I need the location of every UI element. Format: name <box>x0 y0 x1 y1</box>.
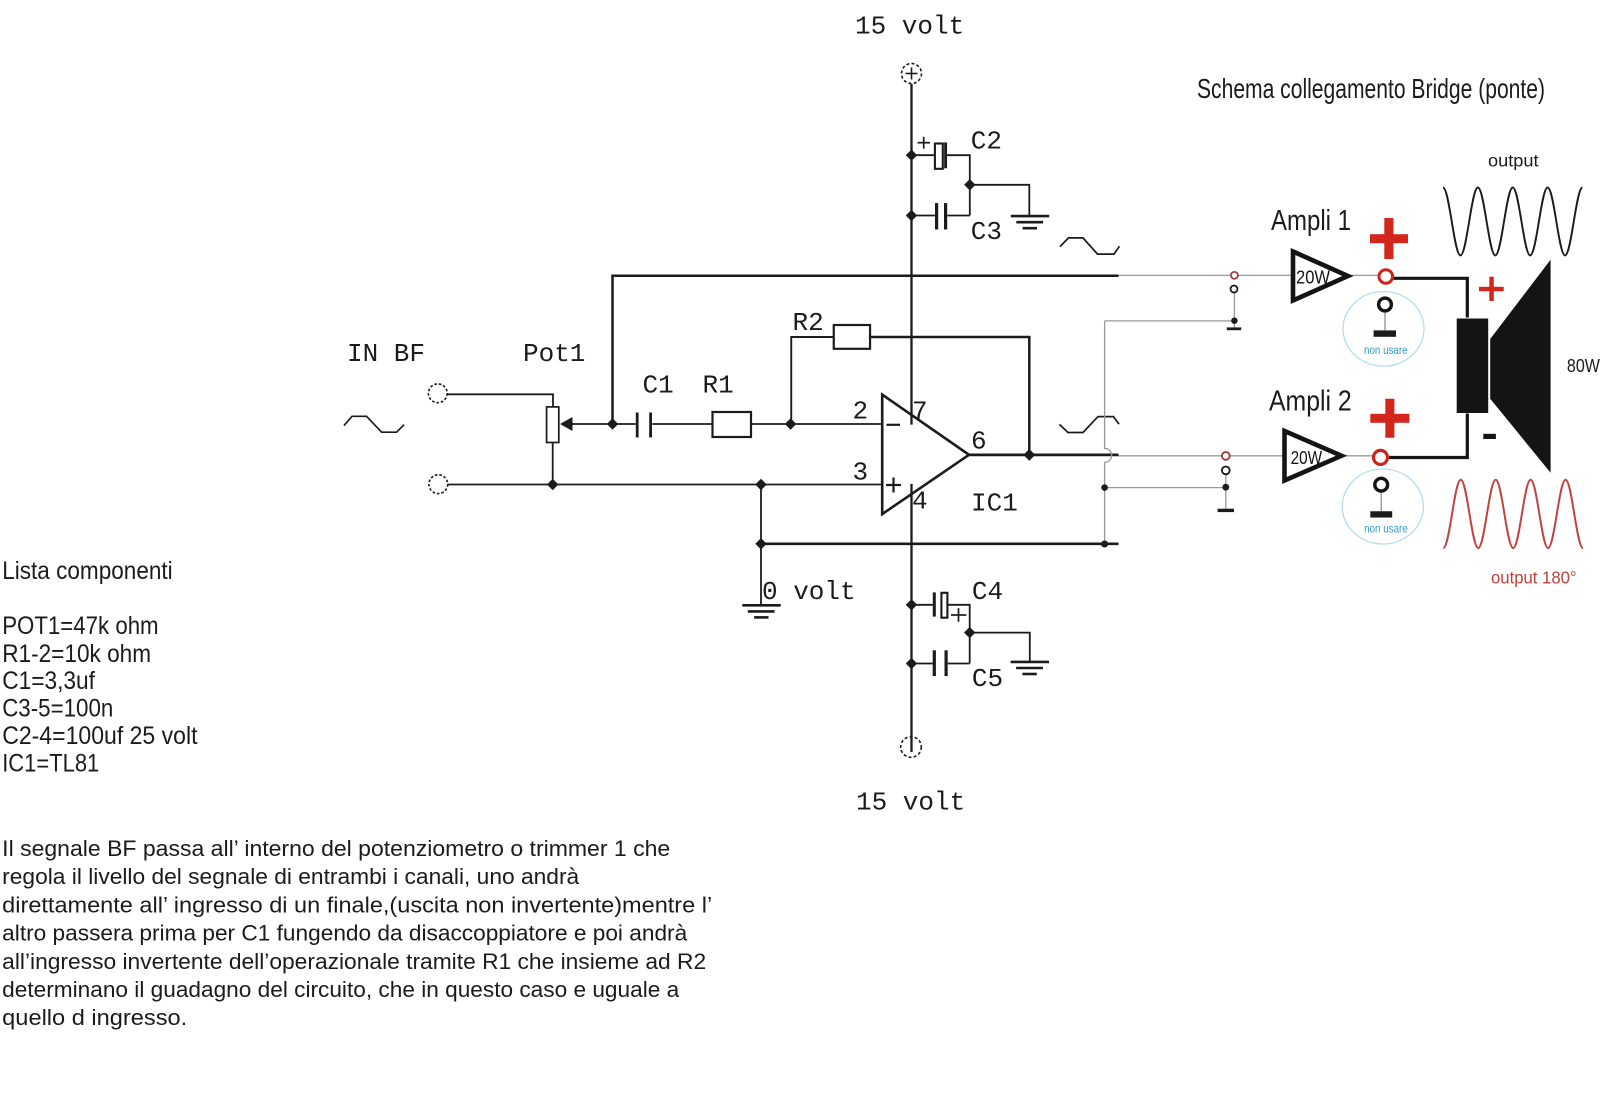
svg-text:C2: C2 <box>971 127 1002 157</box>
svg-text:20W: 20W <box>1291 447 1323 468</box>
svg-text:15 volt: 15 volt <box>855 12 964 42</box>
svg-text:0 volt: 0 volt <box>762 577 856 607</box>
svg-text:regola il livello del segnale: regola il livello del segnale di entramb… <box>2 864 580 889</box>
svg-text:C2-4=100uf 25 volt: C2-4=100uf 25 volt <box>2 722 197 750</box>
svg-text:non usare: non usare <box>1364 523 1408 536</box>
svg-text:all’ingresso invertente dell’o: all’ingresso invertente dell’operazional… <box>2 949 706 974</box>
svg-text:R1: R1 <box>703 371 734 401</box>
svg-text:determinano il guadagno del ci: determinano il guadagno del circuito, ch… <box>2 977 680 1002</box>
svg-text:C1: C1 <box>643 371 674 401</box>
svg-text:output 180°: output 180° <box>1491 568 1577 588</box>
svg-text:R1-2=10k ohm: R1-2=10k ohm <box>2 640 151 668</box>
svg-text:quello d ingresso.: quello d ingresso. <box>2 1005 187 1030</box>
svg-text:altro passera prima per C1 fun: altro passera prima per C1 fungendo da d… <box>2 921 688 946</box>
svg-text:C1=3,3uf: C1=3,3uf <box>2 667 95 695</box>
svg-text:output: output <box>1488 151 1539 171</box>
svg-text:R2: R2 <box>793 308 824 338</box>
svg-text:Ampli 1: Ampli 1 <box>1271 205 1351 237</box>
svg-text:Lista componenti: Lista componenti <box>2 557 173 585</box>
svg-text:C4: C4 <box>972 577 1003 607</box>
svg-text:Schema collegamento Bridge (po: Schema collegamento Bridge (ponte) <box>1197 73 1545 104</box>
svg-text:IC1=TL81: IC1=TL81 <box>2 749 99 777</box>
svg-text:IC1: IC1 <box>971 489 1018 519</box>
svg-text:Pot1: Pot1 <box>523 339 585 369</box>
svg-text:C3: C3 <box>971 217 1002 247</box>
svg-text:7: 7 <box>912 396 928 426</box>
svg-text:4: 4 <box>912 487 928 517</box>
svg-text:C3-5=100n: C3-5=100n <box>2 695 113 723</box>
svg-text:C5: C5 <box>972 664 1003 694</box>
svg-text:Il segnale BF passa all’ inter: Il segnale BF passa all’ interno del pot… <box>2 836 670 861</box>
svg-text:non usare: non usare <box>1364 344 1408 357</box>
svg-text:80W: 80W <box>1567 356 1600 376</box>
svg-text:IN BF: IN BF <box>347 339 425 369</box>
svg-text:15 volt: 15 volt <box>856 787 965 817</box>
svg-text:POT1=47k ohm: POT1=47k ohm <box>2 612 158 640</box>
svg-text:Ampli 2: Ampli 2 <box>1269 386 1352 418</box>
svg-text:3: 3 <box>853 458 869 488</box>
svg-text:20W: 20W <box>1296 266 1331 287</box>
svg-text:2: 2 <box>853 396 869 426</box>
svg-text:direttamente all’ ingresso di: direttamente all’ ingresso di un finale,… <box>2 892 712 917</box>
svg-text:6: 6 <box>971 426 987 456</box>
